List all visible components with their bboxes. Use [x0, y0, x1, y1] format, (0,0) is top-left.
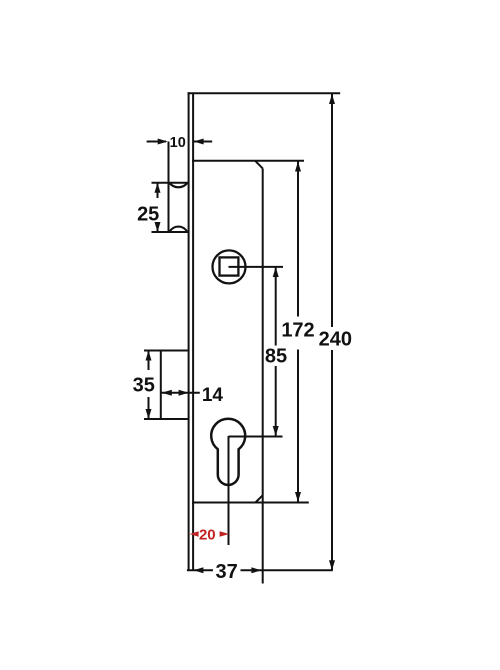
dimension 37: right arrowhead	[251, 567, 261, 573]
dimension 14: right arrowhead	[179, 390, 189, 396]
dimension 37: line right segment	[241, 569, 333, 571]
dimension 172: bottom arrowhead	[295, 492, 301, 502]
dimension 85: bottom arrowhead	[273, 426, 279, 436]
lock case bottom-right chamfer	[255, 495, 262, 502]
dimension 240: top arrowhead	[329, 94, 335, 104]
dimension 25: line upper segment	[157, 183, 159, 198]
dimension 35: line lower segment	[148, 397, 150, 419]
lock case right edge / 37 extension line	[262, 168, 264, 583]
cylinder horizontal centre line to 85 dimension	[229, 436, 283, 438]
dimension 25: bottom arrowhead	[155, 222, 161, 232]
bottom screw hole arc	[170, 227, 188, 232]
svg-text:20: 20	[199, 527, 216, 544]
dimension 35: top extension line	[144, 350, 189, 352]
faceplate left edge	[188, 92, 190, 570]
svg-text:25: 25	[137, 203, 159, 225]
svg-text:35: 35	[133, 375, 155, 397]
svg-text:172: 172	[281, 320, 314, 342]
dimension 172: line upper segment	[297, 162, 299, 317]
svg-text:14: 14	[202, 385, 224, 406]
dimension 85: top arrowhead	[273, 267, 279, 277]
dimension 14: line	[161, 392, 200, 394]
lock case bottom edge / 172 bottom extension line	[192, 502, 309, 504]
dimension 10: left extension line	[168, 142, 170, 233]
spindle square hole	[220, 257, 239, 275]
dimension 10: left leader	[147, 141, 166, 143]
dimension 35: bottom arrowhead	[146, 409, 152, 419]
svg-text:37: 37	[215, 561, 237, 583]
dimension 37: left arrowhead	[193, 567, 203, 573]
spindle centre line to 85 dimension	[229, 266, 284, 268]
faceplate right edge	[192, 93, 194, 570]
top screw hole line / 25 top extension line	[152, 182, 190, 184]
dimension 35: bottom extension line	[144, 418, 189, 420]
dimension 10: left arrowhead	[158, 139, 168, 145]
svg-text:240: 240	[319, 329, 352, 351]
latch plate vertical line	[160, 351, 162, 420]
svg-text:10: 10	[170, 135, 186, 151]
faceplate top edge / 240 top extension line	[188, 92, 341, 94]
dimension 240: line lower segment	[331, 350, 333, 570]
dimension 20 (red): right arrowhead	[220, 531, 230, 536]
dimension 35: top arrowhead	[146, 351, 152, 361]
dimension 20 (red): left arrowhead	[190, 531, 199, 536]
svg-text:85: 85	[265, 345, 287, 367]
dimension 37: line left segment	[187, 569, 213, 571]
spindle follower circle	[213, 250, 246, 283]
euro cylinder keyhole outline	[211, 419, 245, 485]
top screw hole arc	[170, 183, 188, 188]
lock case top edge / 172 top extension line	[192, 160, 304, 162]
dimension 10: right leader	[194, 141, 213, 143]
dimension 240: bottom arrowhead	[329, 560, 335, 570]
dimension 172: line lower segment	[297, 350, 299, 503]
dimension 85: line upper segment	[275, 267, 277, 346]
dimension 10: right arrowhead	[194, 139, 204, 145]
lock case top-right chamfer	[255, 161, 263, 169]
dimension 25: top arrowhead	[155, 183, 161, 193]
dimension 240: line upper segment	[331, 94, 333, 327]
bottom screw hole line / 25 bottom extension line	[152, 231, 190, 233]
cylinder vertical centre line	[228, 436, 230, 545]
dimension 14: left arrowhead	[162, 390, 172, 396]
dimension 25: line lower segment	[157, 222, 159, 232]
dimension 172: top arrowhead	[295, 162, 301, 172]
dimension 85: line lower segment	[275, 366, 277, 436]
dimension 35: line upper segment	[148, 351, 150, 371]
